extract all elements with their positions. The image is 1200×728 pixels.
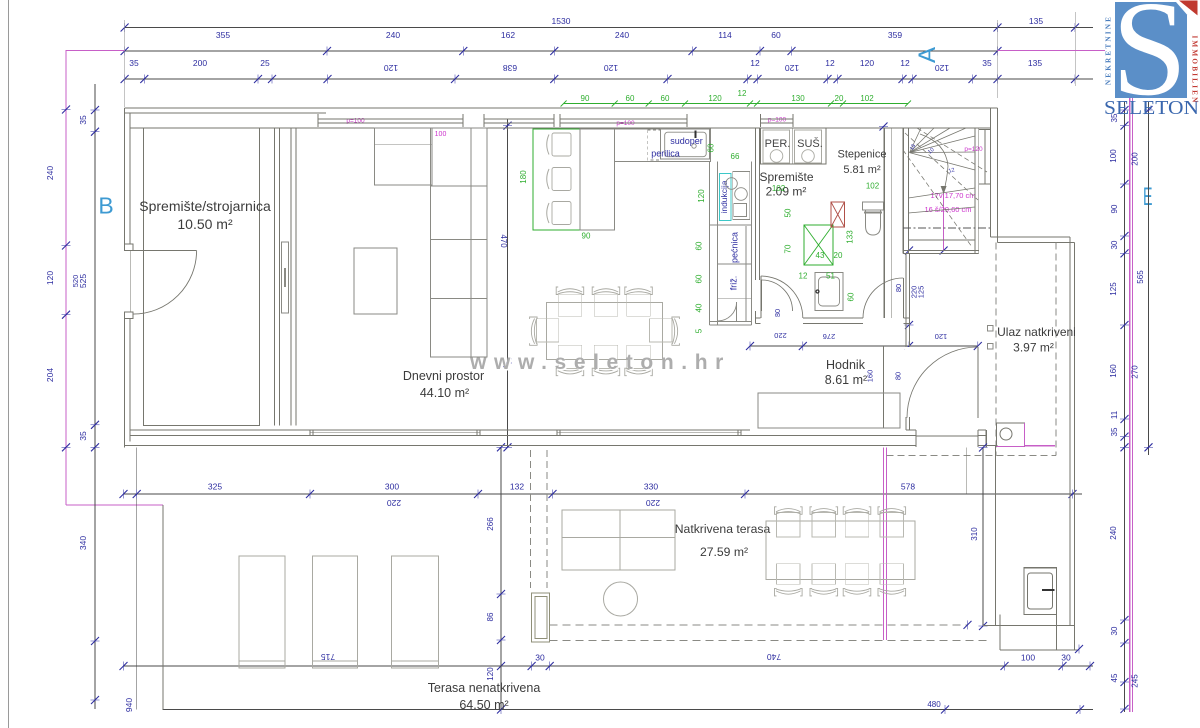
wall top secondary left <box>125 112 326 114</box>
svg-text:132: 132 <box>510 482 524 492</box>
svg-text:133: 133 <box>846 230 855 244</box>
outdoor round table <box>604 582 638 616</box>
svg-text:220: 220 <box>387 498 401 508</box>
kitchen green dim line top <box>564 103 908 105</box>
door leaf Spremiste <box>133 250 197 252</box>
svg-text:friž.: friž. <box>729 276 739 291</box>
svg-text:IMMOBILIEN: IMMOBILIEN <box>1191 35 1199 104</box>
green X box <box>804 225 833 265</box>
terrace dim row ticks <box>120 490 128 499</box>
svg-text:102: 102 <box>772 184 786 193</box>
left inner dim ticks <box>91 106 100 114</box>
svg-text:60: 60 <box>847 292 856 301</box>
svg-text:638: 638 <box>503 63 517 73</box>
bar stool 1 <box>552 133 571 156</box>
wall bottom outer <box>125 445 998 447</box>
terrace chairs bottom <box>777 564 801 585</box>
svg-text:60: 60 <box>771 30 781 40</box>
svg-text:940: 940 <box>124 698 134 712</box>
svg-text:276: 276 <box>823 332 836 341</box>
svg-text:270: 270 <box>1131 365 1140 379</box>
stair dash-dot cut line <box>903 227 990 229</box>
hodnik sideboard <box>758 393 900 428</box>
svg-text:11: 11 <box>1110 410 1119 419</box>
svg-text:Ulaz natkriveni: Ulaz natkriveni <box>997 325 1076 339</box>
logo blue square <box>1115 2 1187 98</box>
svg-text:240: 240 <box>45 166 55 180</box>
terrace left boundary <box>162 505 164 710</box>
sink faucet <box>692 144 696 148</box>
svg-text:50: 50 <box>784 208 793 217</box>
svg-text:Terasa nenatkrivena: Terasa nenatkrivena <box>428 681 541 695</box>
svg-text:PER.: PER. <box>765 138 791 150</box>
walkway dim line x983 <box>982 448 984 627</box>
svg-text:740: 740 <box>767 652 781 662</box>
ulaz dashed canopy line <box>887 455 1057 457</box>
bath door 1 leaf and arc <box>760 276 762 318</box>
lounger 3 <box>392 556 439 668</box>
stair winder treads <box>910 128 922 153</box>
svg-text:565: 565 <box>1136 270 1145 284</box>
svg-text:27.59 m²: 27.59 m² <box>700 545 748 559</box>
toilet <box>863 202 884 210</box>
svg-text:indukcija: indukcija <box>719 180 729 213</box>
pocket sliding door leaf <box>282 242 289 313</box>
right inner dim line <box>1124 102 1126 712</box>
wall entrance right vertical <box>1069 237 1071 626</box>
terrace dashed verticals left <box>530 450 532 588</box>
svg-text:120: 120 <box>708 94 722 103</box>
svg-text:8.61 m²: 8.61 m² <box>825 373 867 387</box>
svg-text:35: 35 <box>129 58 139 68</box>
window W2a north <box>484 118 554 120</box>
svg-text:60: 60 <box>707 143 716 152</box>
right dim ticks <box>1120 106 1129 114</box>
hodnik door opening gap in wall x909 <box>905 347 911 417</box>
bottom dim row ticks <box>120 662 128 671</box>
svg-text:40: 40 <box>695 303 704 312</box>
wall left outer <box>124 108 126 447</box>
svg-text:200: 200 <box>1131 152 1140 166</box>
svg-text:220: 220 <box>774 331 787 340</box>
svg-text:30: 30 <box>1110 626 1119 635</box>
svg-text:60: 60 <box>661 94 670 103</box>
kitchen island counter <box>580 129 615 230</box>
svg-text:Hodnik: Hodnik <box>826 358 866 372</box>
bath door 2 leaf and arc <box>902 278 904 318</box>
wall top inner face <box>130 127 991 129</box>
bottom-most dim line y709 <box>163 709 1094 711</box>
svg-text:p=100: p=100 <box>616 120 635 127</box>
sink inner <box>665 132 707 157</box>
svg-text:20: 20 <box>834 251 843 260</box>
section line magenta right vertical <box>1129 98 1131 712</box>
svg-text:300: 300 <box>385 482 399 492</box>
svg-text:90: 90 <box>582 232 591 241</box>
dim row3 line <box>125 78 1093 80</box>
dishwasher dashed <box>648 130 661 160</box>
svg-text:Stepenice: Stepenice <box>838 149 887 161</box>
entrance threshold gap <box>916 429 978 447</box>
stair dashed diagonals <box>905 133 978 200</box>
page frame left edge <box>8 0 10 728</box>
dim guide verticals top <box>124 20 126 107</box>
sofa cushion dividers <box>431 185 487 187</box>
dining chairs bottom row <box>558 345 582 368</box>
walkway left wall <box>994 446 996 626</box>
svg-text:715: 715 <box>321 652 335 662</box>
svg-text:Natkrivena terasa: Natkrivena terasa <box>675 522 771 536</box>
washer PER <box>763 130 790 163</box>
dining table interior <box>547 302 663 359</box>
stair straight treads <box>908 188 975 198</box>
svg-text:86: 86 <box>486 612 495 621</box>
svg-text:310: 310 <box>970 527 979 541</box>
svg-text:3.97 m²: 3.97 m² <box>1013 341 1054 355</box>
svg-text:12: 12 <box>900 58 910 68</box>
terrace chairs top <box>777 512 801 537</box>
entrance door leaf and arc <box>977 347 979 418</box>
svg-text:160: 160 <box>1109 364 1118 378</box>
svg-text:340: 340 <box>78 536 88 550</box>
svg-text:E: E <box>1143 183 1153 211</box>
entrance column <box>997 423 1025 447</box>
door jamb bottom <box>125 312 133 319</box>
svg-text:359: 359 <box>888 30 902 40</box>
svg-text:70: 70 <box>784 244 793 253</box>
svg-text:SELETON: SELETON <box>1104 97 1199 119</box>
door arc Spremiste <box>133 251 197 315</box>
svg-text:120: 120 <box>45 271 55 285</box>
pocket door wall inner lines <box>279 128 281 426</box>
svg-text:pećnica: pećnica <box>730 232 740 263</box>
dim row1 ticks <box>121 23 129 32</box>
bar stool 2 <box>552 168 571 191</box>
dining chair right <box>650 319 672 342</box>
svg-text:80: 80 <box>773 309 782 317</box>
svg-text:120: 120 <box>935 332 948 341</box>
spremiste door arc east <box>761 280 763 311</box>
magenta pair terrace vertical <box>883 448 885 641</box>
vertical dim x501 terrace <box>500 447 502 709</box>
svg-text:162: 162 <box>501 30 515 40</box>
svg-text:100: 100 <box>1021 653 1035 663</box>
svg-text:80: 80 <box>894 284 903 292</box>
svg-text:60: 60 <box>626 94 635 103</box>
svg-text:102: 102 <box>866 182 880 191</box>
svg-text:355: 355 <box>216 30 230 40</box>
svg-text:180: 180 <box>519 170 528 184</box>
stairs bottom wall <box>903 250 979 252</box>
window stairwell east <box>984 130 986 184</box>
svg-text:204: 204 <box>45 368 55 382</box>
bath-stairs wall <box>883 128 885 318</box>
svg-text:470: 470 <box>499 234 508 248</box>
svg-text:240: 240 <box>615 30 629 40</box>
svg-text:120: 120 <box>860 58 874 68</box>
svg-text:43: 43 <box>816 251 825 260</box>
svg-text:520: 520 <box>71 275 80 288</box>
wall bottom mid <box>130 435 986 437</box>
svg-text:120: 120 <box>384 63 398 73</box>
dim row3 ticks <box>121 75 129 84</box>
svg-text:A: A <box>914 47 941 63</box>
wall bottom inner face <box>130 429 750 431</box>
door opening left wall gap <box>120 251 130 313</box>
window W2b north kitchen <box>560 118 687 120</box>
svg-text:B: B <box>98 193 113 219</box>
svg-text:35: 35 <box>1110 427 1119 436</box>
bath door opening 1 gap <box>761 317 804 326</box>
bath wall bottom <box>756 317 910 319</box>
svg-text:35: 35 <box>78 115 88 125</box>
svg-text:120: 120 <box>697 189 706 203</box>
vertical dim x136 below building <box>136 447 138 709</box>
svg-text:90: 90 <box>581 94 590 103</box>
wall top outer <box>125 107 998 109</box>
svg-text:sudoper: sudoper <box>670 136 703 146</box>
svg-text:NEKRETNINE: NEKRETNINE <box>1105 15 1113 85</box>
lounger 1 <box>239 556 285 668</box>
door jamb top <box>125 244 133 251</box>
window W1 north <box>318 118 463 120</box>
kitchen counter run <box>615 129 711 162</box>
dryer SUS <box>795 130 822 163</box>
cooktop burners <box>726 178 738 190</box>
walkway bottom solid <box>983 625 1075 627</box>
svg-text:Spremište/strojarnica: Spremište/strojarnica <box>139 198 271 214</box>
svg-text:10.50 m²: 10.50 m² <box>177 216 233 232</box>
svg-text:245: 245 <box>1131 674 1140 688</box>
section line magenta corner to terrace <box>66 504 163 506</box>
sink outer <box>660 129 709 160</box>
svg-text:p=100: p=100 <box>768 117 787 124</box>
svg-text:SUŠ.: SUŠ. <box>797 137 823 150</box>
left inner dim line <box>94 84 96 709</box>
shower square <box>815 273 843 311</box>
ulaz dashed outline <box>995 242 997 455</box>
svg-text:12: 12 <box>825 58 835 68</box>
stair walk line arc <box>920 134 948 192</box>
hodnik thin line x883 <box>883 346 885 428</box>
appliance column walls <box>709 162 711 325</box>
hodnik dim line y346 <box>750 345 978 347</box>
svg-text:220: 220 <box>646 498 660 508</box>
svg-text:35: 35 <box>982 58 992 68</box>
vertical dim x507 interior living <box>507 119 509 447</box>
bar stool 3 <box>552 202 571 225</box>
svg-text:12: 12 <box>750 58 760 68</box>
svg-text:5: 5 <box>695 328 704 333</box>
svg-text:325: 325 <box>208 482 222 492</box>
svg-text:60: 60 <box>695 274 704 283</box>
svg-text:p=100: p=100 <box>346 118 365 125</box>
dining chairs top row <box>558 294 582 316</box>
terrace dining table <box>766 521 915 580</box>
sofa vertical part <box>431 128 487 357</box>
svg-text:45: 45 <box>1110 673 1119 682</box>
terrace dim row line y495 <box>124 493 1083 495</box>
svg-text:44.10 m²: 44.10 m² <box>420 386 469 400</box>
svg-text:578: 578 <box>901 482 915 492</box>
lounger 2 <box>313 556 358 668</box>
section line magenta left vertical <box>65 50 67 505</box>
svg-text:1530: 1530 <box>552 16 571 26</box>
svg-text:60: 60 <box>695 241 704 250</box>
ulaz small squares <box>988 326 994 332</box>
outdoor sofa <box>562 510 675 570</box>
svg-text:130: 130 <box>791 94 805 103</box>
svg-text:125: 125 <box>917 286 926 299</box>
svg-text:12: 12 <box>799 272 808 281</box>
wall right stair outer <box>997 108 999 242</box>
kitchen island green outline <box>533 129 615 230</box>
PER SUS box <box>761 128 827 164</box>
svg-text:240: 240 <box>1109 526 1118 540</box>
dim row2 line <box>125 50 998 52</box>
bath door opening 2 gap <box>863 317 904 326</box>
stairs left wall <box>902 128 904 254</box>
svg-text:30: 30 <box>1110 240 1119 249</box>
left outer dim ticks <box>62 106 71 114</box>
wall entrance step horizontal <box>991 236 1071 238</box>
section line magenta top-left horizontal <box>66 50 125 52</box>
svg-text:200: 200 <box>193 58 207 68</box>
svg-text:266: 266 <box>486 517 495 531</box>
kitchen-bath wall vertical <box>755 128 757 280</box>
entrance column magenta edges <box>997 446 1025 448</box>
svg-text:20: 20 <box>835 94 844 103</box>
pocket door wall outer lines <box>274 128 276 426</box>
wall bottom inner right part <box>906 429 986 431</box>
svg-text:35: 35 <box>78 431 88 441</box>
terrace dashed horizontals lower <box>550 624 968 626</box>
bbq grill <box>1024 568 1056 615</box>
logo red triangle <box>1179 1 1198 16</box>
svg-text:Spremište: Spremište <box>759 170 813 184</box>
dim row2 ticks <box>121 47 129 56</box>
svg-text:90: 90 <box>1110 204 1119 213</box>
wall entrance bottom vertical x986 <box>985 430 987 447</box>
svg-text:100: 100 <box>1109 149 1118 163</box>
cooktop panel <box>733 172 750 220</box>
window south sliding 2 <box>557 432 741 434</box>
svg-text:100: 100 <box>435 131 447 138</box>
induction hob cyan <box>720 174 732 221</box>
stairs right wall <box>974 128 976 254</box>
svg-text:102: 102 <box>860 94 874 103</box>
svg-text:240: 240 <box>386 30 400 40</box>
svg-text:125: 125 <box>1109 282 1118 296</box>
window W3 north PER <box>761 118 794 120</box>
svg-text:120: 120 <box>785 63 799 73</box>
svg-text:66: 66 <box>731 152 740 161</box>
terrace corner post <box>532 593 550 642</box>
svg-text:perilica: perilica <box>651 149 680 159</box>
window south sliding 1 <box>310 432 480 434</box>
svg-text:30: 30 <box>1061 653 1071 663</box>
svg-text:5.81 m²: 5.81 m² <box>843 164 881 176</box>
bottom dim row line y666 <box>124 665 1094 667</box>
svg-text:www.seleton.hr: www.seleton.hr <box>469 351 731 374</box>
svg-text:120: 120 <box>604 63 618 73</box>
sofa horizontal part <box>374 128 432 185</box>
svg-text:80: 80 <box>894 372 903 380</box>
svg-text:480: 480 <box>927 700 941 709</box>
svg-text:30: 30 <box>535 653 545 663</box>
right outer dim line <box>1148 102 1150 455</box>
magenta stairs vertical <box>943 192 945 251</box>
bbq nook <box>999 615 1001 651</box>
svg-text:120: 120 <box>935 63 949 73</box>
svg-text:135: 135 <box>1029 16 1043 26</box>
room Spremiste-strojarnica box <box>144 128 260 426</box>
dim row1 line overall <box>125 27 1093 29</box>
svg-text:120: 120 <box>486 667 495 681</box>
wall left inner <box>129 113 131 442</box>
svg-text:330: 330 <box>644 482 658 492</box>
closet door arc <box>718 302 737 321</box>
svg-text:51: 51 <box>826 272 835 281</box>
magenta section top-right horizontal <box>998 50 1106 52</box>
red X box <box>831 202 845 227</box>
walkway wall edge short <box>966 448 968 494</box>
svg-text:12: 12 <box>738 89 747 98</box>
svg-text:64.50 m²: 64.50 m² <box>459 698 508 712</box>
coffee table <box>354 248 397 314</box>
dining chair left <box>536 319 558 342</box>
svg-text:25: 25 <box>260 58 270 68</box>
svg-text:114: 114 <box>718 30 732 40</box>
svg-text:135: 135 <box>1028 58 1042 68</box>
hodnik right wall <box>905 254 907 431</box>
